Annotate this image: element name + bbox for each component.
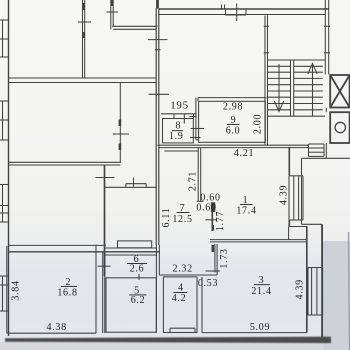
wall H band y245: [9, 245, 161, 251]
room8 box: [161, 114, 197, 143]
svg-text:2.71: 2.71: [188, 171, 199, 191]
wall between 5 and 4: [156, 245, 159, 333]
svg-text:2.00: 2.00: [253, 114, 264, 134]
svg-text:4.21: 4.21: [234, 148, 254, 159]
tick right wall y25: [324, 25, 330, 27]
top outer wall: [159, 9, 329, 15]
stair bottom line: [268, 115, 326, 117]
svg-text:5.09: 5.09: [250, 322, 270, 333]
svg-text:6.2: 6.2: [131, 295, 146, 306]
svg-text:17.4: 17.4: [236, 205, 256, 216]
svg-text:4.39: 4.39: [295, 279, 306, 299]
wall G vertical x104: [104, 165, 106, 276]
door tick y221: [205, 219, 216, 221]
room1 window: [289, 176, 303, 220]
right edge scan line: [349, 232, 350, 350]
long wall x157: [156, 0, 159, 245]
svg-text:4.38: 4.38: [47, 322, 67, 333]
stair middle rail: [291, 60, 294, 116]
room6 top inner edge: [106, 254, 158, 256]
door tick on wall A: [78, 21, 91, 23]
hall top wall y145: [158, 145, 310, 151]
room 2 label: [57, 277, 77, 299]
svg-text:6.11: 6.11: [161, 208, 172, 228]
stair treads right: [294, 66, 323, 110]
door tick on wall B: [107, 11, 119, 13]
room3 top wall: [210, 240, 307, 242]
svg-text:195: 195: [170, 100, 189, 112]
bathtub: [170, 328, 195, 332]
room4 top wall: [159, 274, 217, 276]
window W3 left: [0, 185, 9, 223]
bottom outer wall: [5, 337, 331, 344]
svg-text:2.98: 2.98: [223, 102, 243, 113]
storage box: [106, 187, 158, 248]
room4 box: [163, 277, 197, 333]
hall wall x199 (2.71): [197, 148, 204, 202]
svg-text:0.60: 0.60: [196, 202, 216, 213]
room3 notch left wall: [201, 277, 203, 333]
wall x213 (1.77): [211, 212, 213, 232]
background bottom strip: [0, 342, 350, 350]
room9 left wall: [196, 98, 199, 140]
svg-text:1.9: 1.9: [169, 131, 184, 142]
svg-text:3.84: 3.84: [11, 280, 22, 300]
door tick on long wall y94: [149, 93, 170, 95]
svg-text:4.2: 4.2: [172, 293, 187, 304]
wall B vertical x112 top: [111, 0, 113, 29]
neighbor block right: [302, 158, 350, 224]
background right-bottom area: [323, 241, 350, 350]
door tick room6 bottom: [138, 274, 140, 280]
stair treads left: [268, 66, 291, 110]
svg-text:21.4: 21.4: [251, 286, 271, 297]
tick right wall y52: [324, 52, 330, 54]
wall C horizontal y25: [112, 26, 158, 29]
svg-text:0.53: 0.53: [198, 278, 218, 289]
wall x216 (1.73): [215, 244, 217, 275]
svg-text:4.39: 4.39: [279, 185, 290, 205]
svg-text:2.6: 2.6: [130, 264, 145, 275]
jamb stub 0.60: [211, 203, 214, 212]
svg-text:12.5: 12.5: [172, 214, 192, 225]
wall D horizontal y79: [9, 78, 157, 83]
svg-text:16.8: 16.8: [57, 288, 77, 299]
window W4 left: [0, 276, 9, 311]
room3 box: [202, 227, 307, 333]
room1 southeast jog: [289, 227, 308, 240]
room2 box: [7, 245, 96, 334]
svg-text:2.32: 2.32: [173, 263, 193, 274]
svg-text:6.0: 6.0: [226, 126, 241, 137]
room 5 label: [129, 285, 147, 306]
elevator shaft X: [330, 75, 349, 108]
svg-text:1.77: 1.77: [215, 211, 226, 231]
room 8 label: [169, 121, 184, 142]
stair down arrow: [274, 64, 283, 112]
room5 box: [106, 278, 156, 332]
storage door marker: [126, 178, 146, 188]
top window: [222, 4, 247, 22]
wall A vertical x83 top: [83, 0, 85, 78]
elevator shaft circle: [330, 112, 349, 143]
window W1 left top: [0, 20, 9, 57]
stair left wall: [264, 16, 269, 146]
room 3 label: [251, 275, 271, 297]
stair up arrow: [308, 64, 317, 117]
window W2 left: [0, 101, 9, 140]
vent stack: [309, 144, 325, 156]
wardrobe: [118, 241, 152, 248]
room6 left wall: [103, 252, 105, 333]
door tick y271: [206, 270, 221, 272]
right outer wall top: [325, 0, 328, 158]
room9 outer top wall: [198, 97, 266, 99]
room 1 label: [236, 195, 256, 217]
room 6 label: [127, 254, 147, 275]
wall F horizontal y163: [9, 162, 121, 165]
room1 right wall: [288, 147, 290, 227]
room3 window right: [308, 268, 323, 316]
left outer wall: [8, 0, 10, 336]
room 7 label: [172, 203, 192, 225]
door tick on long wall y40: [148, 40, 168, 50]
svg-text:4: 4: [178, 283, 184, 294]
door tick room2 right: [98, 265, 111, 267]
door tick on wall G: [96, 177, 115, 179]
door tick room9 left: [191, 128, 205, 130]
svg-text:1.73: 1.73: [219, 248, 230, 268]
room 9 label: [226, 115, 241, 137]
wall E vertical x120: [119, 83, 121, 164]
background band mid: [0, 244, 350, 336]
room9 box: [199, 101, 266, 142]
door tick room9 left top: [190, 116, 197, 118]
right outer wall bottom: [321, 224, 323, 340]
door tick on wall E: [113, 133, 129, 135]
room 4 label: [172, 283, 187, 305]
jamb marks x213: [212, 225, 215, 252]
stair top line: [268, 59, 326, 61]
